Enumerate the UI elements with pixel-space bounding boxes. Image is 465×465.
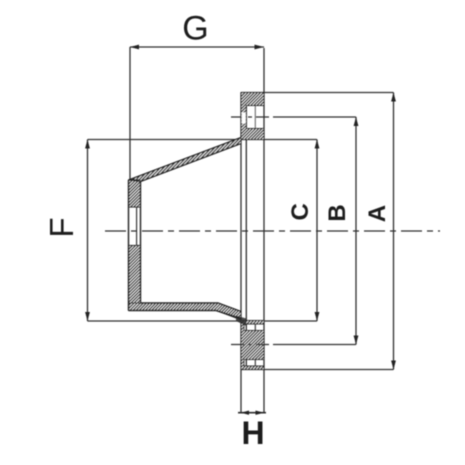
- svg-text:C: C: [287, 203, 314, 220]
- svg-text:A: A: [364, 205, 391, 222]
- svg-text:H: H: [241, 415, 264, 451]
- svg-text:F: F: [43, 217, 80, 237]
- svg-text:B: B: [324, 204, 351, 221]
- svg-text:G: G: [182, 10, 208, 48]
